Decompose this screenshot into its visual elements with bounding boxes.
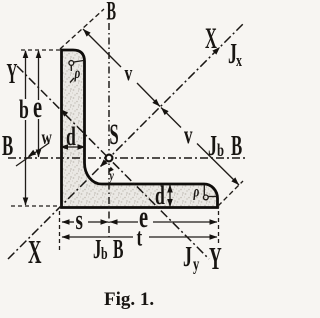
svg-text:B: B	[2, 131, 13, 163]
svg-text:v: v	[125, 61, 133, 87]
svg-text:b: b	[101, 245, 108, 264]
svg-text:B: B	[231, 131, 242, 163]
svg-text:s: s	[76, 206, 83, 236]
svg-text:ρ: ρ	[193, 183, 200, 200]
svg-text:y: y	[108, 167, 114, 183]
svg-text:X: X	[205, 22, 217, 55]
svg-text:b: b	[217, 141, 224, 161]
svg-text:w: w	[42, 125, 52, 148]
svg-text:B: B	[113, 234, 124, 265]
svg-text:ρ: ρ	[74, 64, 81, 81]
svg-text:b: b	[19, 95, 29, 124]
svg-text:y: y	[193, 255, 199, 275]
svg-text:Y: Y	[7, 57, 18, 90]
svg-text:J: J	[93, 234, 101, 264]
svg-text:d: d	[66, 122, 76, 151]
svg-text:x: x	[236, 52, 242, 71]
svg-text:B: B	[107, 0, 117, 26]
svg-text:d: d	[155, 181, 165, 210]
svg-text:J: J	[208, 131, 217, 162]
svg-text:Fig. 1.: Fig. 1.	[104, 289, 154, 310]
svg-text:X: X	[28, 233, 42, 270]
svg-text:t: t	[137, 223, 143, 251]
svg-text:J: J	[183, 242, 192, 273]
svg-text:v: v	[184, 121, 193, 149]
svg-text:S: S	[110, 118, 119, 151]
svg-text:Y: Y	[209, 240, 222, 276]
svg-text:e: e	[33, 90, 42, 124]
